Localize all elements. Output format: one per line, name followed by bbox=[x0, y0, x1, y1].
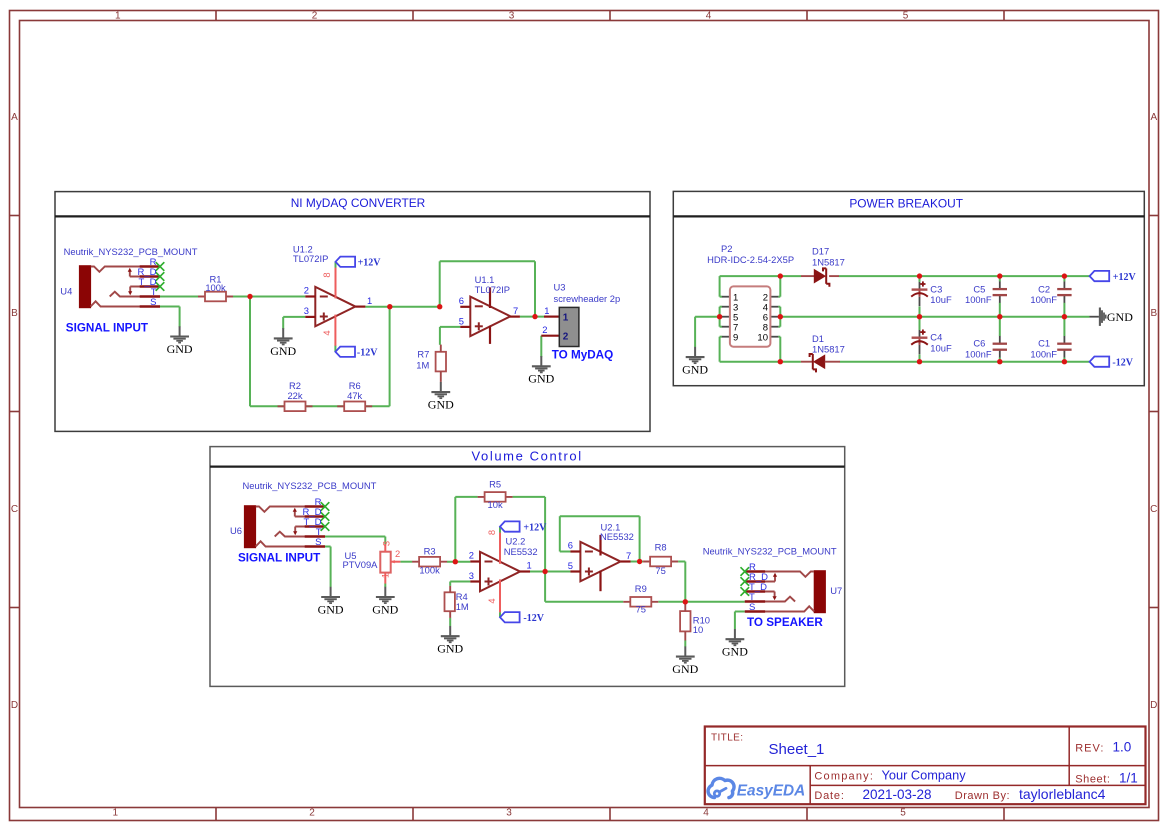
svg-text:5: 5 bbox=[568, 560, 573, 571]
svg-text:U6: U6 bbox=[230, 525, 242, 536]
svg-text:A: A bbox=[11, 112, 18, 123]
svg-text:S: S bbox=[315, 537, 321, 548]
svg-text:GND: GND bbox=[270, 344, 296, 358]
svg-text:2: 2 bbox=[309, 808, 315, 819]
svg-text:Neutrik_NYS232_PCB_MOUNT: Neutrik_NYS232_PCB_MOUNT bbox=[243, 480, 377, 491]
svg-text:2021-03-28: 2021-03-28 bbox=[863, 787, 932, 802]
svg-text:HDR-IDC-2.54-2X5P: HDR-IDC-2.54-2X5P bbox=[707, 254, 794, 265]
svg-text:10: 10 bbox=[693, 624, 703, 635]
svg-text:TITLE:: TITLE: bbox=[711, 732, 743, 743]
svg-text:2: 2 bbox=[395, 548, 400, 559]
svg-text:1N5817: 1N5817 bbox=[812, 257, 845, 268]
svg-text:B: B bbox=[1150, 308, 1157, 319]
svg-text:Date:: Date: bbox=[814, 790, 844, 802]
svg-text:1M: 1M bbox=[416, 360, 429, 371]
svg-text:1M: 1M bbox=[456, 601, 469, 612]
svg-text:Sheet_1: Sheet_1 bbox=[769, 741, 825, 758]
svg-text:7: 7 bbox=[513, 305, 518, 316]
svg-text:-12V: -12V bbox=[1112, 358, 1133, 369]
svg-text:22k: 22k bbox=[287, 390, 302, 401]
svg-text:POWER BREAKOUT: POWER BREAKOUT bbox=[849, 196, 963, 210]
svg-text:Neutrik_NYS232_PCB_MOUNT: Neutrik_NYS232_PCB_MOUNT bbox=[64, 246, 198, 257]
svg-text:EasyEDA: EasyEDA bbox=[737, 782, 805, 799]
svg-text:NE5532: NE5532 bbox=[600, 531, 634, 542]
svg-text:1: 1 bbox=[544, 305, 549, 316]
svg-text:+12V: +12V bbox=[358, 258, 382, 269]
svg-text:R5: R5 bbox=[489, 478, 501, 489]
svg-text:SIGNAL INPUT: SIGNAL INPUT bbox=[238, 551, 321, 564]
svg-text:1: 1 bbox=[380, 573, 391, 578]
svg-text:3: 3 bbox=[304, 305, 309, 316]
svg-text:C1: C1 bbox=[1038, 338, 1050, 349]
svg-text:A: A bbox=[1150, 112, 1157, 123]
svg-text:taylorleblanc4: taylorleblanc4 bbox=[1019, 786, 1106, 802]
svg-text:4: 4 bbox=[706, 11, 712, 22]
svg-text:47k: 47k bbox=[347, 390, 362, 401]
svg-text:C4: C4 bbox=[930, 332, 942, 343]
svg-text:10: 10 bbox=[757, 332, 768, 343]
svg-text:-12V: -12V bbox=[357, 348, 378, 359]
svg-text:GND: GND bbox=[528, 372, 554, 386]
svg-text:100nF: 100nF bbox=[965, 349, 992, 360]
svg-text:2: 2 bbox=[563, 332, 569, 343]
svg-text:+12V: +12V bbox=[523, 523, 547, 534]
svg-text:8: 8 bbox=[486, 530, 497, 535]
svg-text:10uF: 10uF bbox=[930, 294, 952, 305]
svg-text:SIGNAL INPUT: SIGNAL INPUT bbox=[66, 321, 149, 334]
svg-text:Neutrik_NYS232_PCB_MOUNT: Neutrik_NYS232_PCB_MOUNT bbox=[703, 545, 837, 556]
svg-text:3: 3 bbox=[506, 808, 512, 819]
svg-text:3: 3 bbox=[380, 541, 391, 546]
svg-text:S: S bbox=[749, 602, 755, 613]
svg-text:100nF: 100nF bbox=[1030, 349, 1057, 360]
svg-text:100k: 100k bbox=[419, 565, 440, 576]
svg-text:C6: C6 bbox=[973, 338, 985, 349]
svg-text:P2: P2 bbox=[721, 243, 732, 254]
svg-text:2: 2 bbox=[542, 324, 547, 335]
svg-text:GND: GND bbox=[372, 602, 398, 616]
svg-text:U3: U3 bbox=[554, 282, 566, 293]
svg-text:C3: C3 bbox=[930, 283, 942, 294]
svg-text:10uF: 10uF bbox=[930, 343, 952, 354]
svg-text:100k: 100k bbox=[205, 282, 226, 293]
svg-text:U2.2: U2.2 bbox=[506, 535, 526, 546]
svg-text:4: 4 bbox=[321, 330, 332, 335]
svg-text:5: 5 bbox=[903, 11, 909, 22]
svg-text:R3: R3 bbox=[424, 545, 436, 556]
svg-text:Your Company: Your Company bbox=[882, 768, 967, 783]
svg-text:3: 3 bbox=[509, 11, 515, 22]
svg-text:1: 1 bbox=[115, 11, 121, 22]
svg-text:1N5817: 1N5817 bbox=[812, 344, 845, 355]
svg-text:C: C bbox=[1150, 504, 1157, 515]
svg-text:75: 75 bbox=[636, 604, 646, 615]
svg-text:PTV09A: PTV09A bbox=[343, 559, 379, 570]
svg-text:4: 4 bbox=[703, 808, 709, 819]
svg-text:1: 1 bbox=[113, 808, 119, 819]
svg-text:GND: GND bbox=[722, 645, 748, 659]
svg-text:10k: 10k bbox=[488, 499, 503, 510]
svg-text:C2: C2 bbox=[1038, 283, 1050, 294]
svg-text:100nF: 100nF bbox=[1030, 294, 1057, 305]
svg-text:GND: GND bbox=[167, 342, 193, 356]
svg-text:TO MyDAQ: TO MyDAQ bbox=[552, 349, 613, 362]
svg-text:R8: R8 bbox=[655, 542, 667, 553]
svg-text:8: 8 bbox=[321, 272, 332, 277]
svg-text:REV:: REV: bbox=[1075, 743, 1104, 755]
svg-text:2: 2 bbox=[469, 550, 474, 561]
svg-text:5: 5 bbox=[900, 808, 906, 819]
svg-text:7: 7 bbox=[626, 550, 631, 561]
svg-text:U4: U4 bbox=[60, 286, 72, 297]
svg-text:6: 6 bbox=[459, 295, 464, 306]
svg-text:B: B bbox=[11, 308, 18, 319]
svg-text:100nF: 100nF bbox=[965, 294, 992, 305]
svg-text:D: D bbox=[1150, 700, 1157, 711]
svg-text:1: 1 bbox=[367, 295, 372, 306]
svg-text:screwheader 2p: screwheader 2p bbox=[554, 293, 621, 304]
svg-text:NI MyDAQ CONVERTER: NI MyDAQ CONVERTER bbox=[291, 196, 426, 210]
svg-text:9: 9 bbox=[733, 332, 738, 343]
svg-text:75: 75 bbox=[655, 565, 665, 576]
svg-text:D1: D1 bbox=[812, 333, 824, 344]
svg-text:D: D bbox=[11, 700, 18, 711]
svg-text:6: 6 bbox=[568, 540, 573, 551]
svg-text:+12V: +12V bbox=[1113, 272, 1137, 283]
svg-text:C: C bbox=[11, 504, 18, 515]
svg-text:GND: GND bbox=[1107, 310, 1133, 324]
svg-text:Company:: Company: bbox=[814, 771, 874, 783]
svg-text:GND: GND bbox=[672, 662, 698, 676]
svg-text:GND: GND bbox=[437, 642, 463, 656]
svg-text:GND: GND bbox=[428, 398, 454, 412]
svg-text:3: 3 bbox=[469, 570, 474, 581]
svg-text:1: 1 bbox=[563, 312, 569, 323]
svg-text:2: 2 bbox=[312, 11, 318, 22]
svg-text:GND: GND bbox=[682, 363, 708, 377]
svg-text:1.0: 1.0 bbox=[1113, 740, 1132, 755]
svg-text:4: 4 bbox=[486, 598, 497, 603]
svg-text:R7: R7 bbox=[417, 349, 429, 360]
svg-text:GND: GND bbox=[318, 602, 344, 616]
svg-text:TL072IP: TL072IP bbox=[475, 284, 510, 295]
svg-text:Volume Control: Volume Control bbox=[471, 448, 582, 463]
svg-text:D17: D17 bbox=[812, 246, 829, 257]
svg-text:5: 5 bbox=[459, 315, 464, 326]
svg-text:S: S bbox=[150, 297, 156, 308]
svg-text:-12V: -12V bbox=[523, 613, 544, 624]
svg-text:1: 1 bbox=[527, 559, 532, 570]
svg-text:NE5532: NE5532 bbox=[504, 546, 538, 557]
svg-text:TL072IP: TL072IP bbox=[293, 253, 328, 264]
svg-text:R9: R9 bbox=[635, 583, 647, 594]
svg-text:Drawn By:: Drawn By: bbox=[955, 790, 1010, 802]
svg-text:TO SPEAKER: TO SPEAKER bbox=[747, 616, 823, 629]
svg-text:1/1: 1/1 bbox=[1119, 771, 1138, 786]
svg-text:Sheet:: Sheet: bbox=[1075, 774, 1110, 786]
svg-text:2: 2 bbox=[304, 285, 309, 296]
svg-text:U7: U7 bbox=[830, 585, 842, 596]
svg-text:C5: C5 bbox=[973, 283, 985, 294]
